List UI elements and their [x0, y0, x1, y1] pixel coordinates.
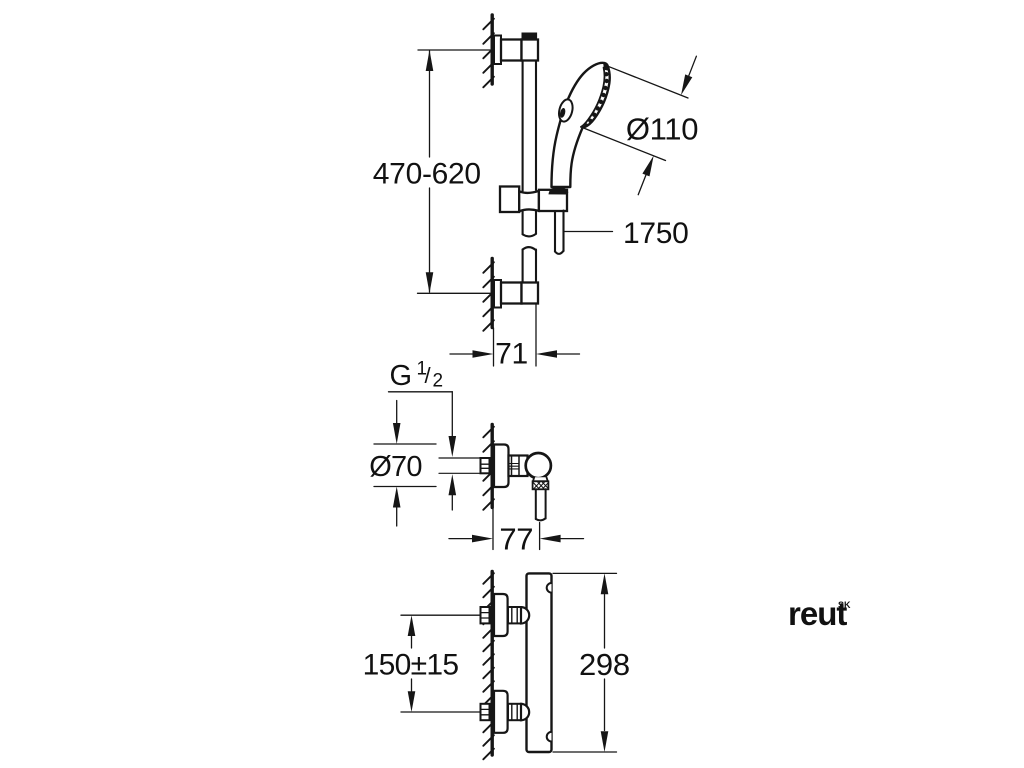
body grip notch (top)	[547, 583, 552, 593]
dimension Ø110 lower arrow	[642, 156, 653, 177]
spray-face tip cap (dark)	[603, 64, 608, 71]
dimension Ø110 upper arrow	[681, 74, 692, 95]
body grip notch (bottom)	[547, 732, 552, 742]
svg-text:1750: 1750	[623, 217, 689, 250]
spray nozzles (dots)	[584, 72, 609, 127]
wall hatching (middle)	[483, 427, 494, 510]
hose length leader line	[564, 231, 613, 233]
lower bracket slider block	[522, 283, 539, 304]
dimension 77 right extension line	[539, 523, 541, 550]
wall flange of upper rail bracket	[494, 36, 501, 65]
union wall nipple (hex tail)	[481, 458, 490, 473]
dimension Ø70 arrows	[396, 401, 398, 424]
svg-text:77: 77	[499, 521, 533, 556]
svg-text:150±15: 150±15	[363, 649, 459, 682]
wall (bottom, thermostat)	[491, 572, 494, 756]
hose knurled nut	[533, 481, 549, 489]
union wall flange (Ø70)	[494, 445, 509, 488]
top union dome	[521, 607, 529, 623]
thermostat body	[527, 573, 552, 752]
rail top cap (dark)	[522, 33, 537, 39]
wall (top, slide-bar upper bracket)	[491, 15, 494, 84]
svg-text:470-620: 470-620	[373, 158, 481, 191]
dimension 150±15 line	[411, 636, 413, 648]
nipple projection lines	[439, 457, 481, 459]
svg-text:Ø110: Ø110	[626, 112, 698, 147]
wall hatching (top upper)	[483, 19, 494, 88]
union connector with hex nut	[509, 456, 528, 477]
wall (top, slide-bar lower bracket)	[491, 259, 494, 328]
bottom union dome	[521, 704, 529, 720]
slide rail (vertical bar)	[523, 61, 536, 283]
dimension Ø70 extension lines	[374, 443, 436, 445]
dimension Ø110 extension line (upper)	[608, 66, 688, 98]
bottom union wall flange	[494, 691, 508, 733]
dimension 71 left extension line	[493, 328, 495, 366]
union ball joint	[526, 453, 551, 478]
dimension 470-620 bottom extension line	[418, 292, 492, 294]
nipple lower arrow	[449, 474, 457, 495]
svg-text:SK: SK	[838, 600, 851, 610]
handshower body (head and handle)	[552, 63, 610, 187]
G 1/2 leader line	[389, 391, 453, 393]
bottom union nut	[508, 704, 521, 720]
shower hose upper section	[555, 211, 564, 254]
dimension 150±15 extension lines	[401, 614, 481, 616]
hose connector neck	[533, 477, 548, 481]
dimension 298 extension lines	[553, 572, 617, 574]
dimension 298 line	[604, 595, 606, 649]
top union hex tail	[481, 607, 490, 623]
svg-text:71: 71	[495, 338, 528, 371]
handshower holder sleeve	[519, 191, 539, 212]
top union nut	[508, 607, 521, 623]
svg-text:2: 2	[433, 371, 444, 392]
dimension 470-620 top extension line	[418, 49, 490, 51]
middle hose stub	[536, 489, 546, 520]
top union wall flange	[494, 594, 508, 636]
svg-text:G: G	[390, 360, 413, 392]
handle base shadow (dark crescent)	[549, 187, 569, 195]
dimension 470-620 line	[429, 51, 431, 157]
handshower spray-face inner rim	[581, 68, 605, 127]
svg-text:Ø70: Ø70	[369, 451, 421, 483]
handshower button	[557, 98, 575, 123]
wall flange of lower rail bracket	[494, 280, 501, 308]
wall hatching (top lower)	[483, 262, 494, 331]
dimension 77 line with arrows	[449, 538, 472, 540]
dimension 77 left extension line	[492, 508, 494, 550]
dimension Ø110 extension line (lower)	[583, 128, 666, 161]
bottom union hex tail	[481, 704, 490, 720]
svg-text:/: /	[425, 363, 432, 388]
dimension 71 right extension line	[535, 305, 537, 367]
lower bracket arm	[501, 283, 522, 304]
dimension 71 line with arrows	[450, 353, 473, 355]
handshower holder right block	[539, 190, 567, 211]
wall (middle, union)	[491, 425, 494, 508]
upper bracket arm	[501, 40, 522, 61]
handshower holder left block	[500, 187, 519, 213]
wall hatching (bottom)	[483, 573, 494, 759]
svg-text:298: 298	[579, 647, 630, 682]
upper bracket slider block	[522, 40, 539, 61]
